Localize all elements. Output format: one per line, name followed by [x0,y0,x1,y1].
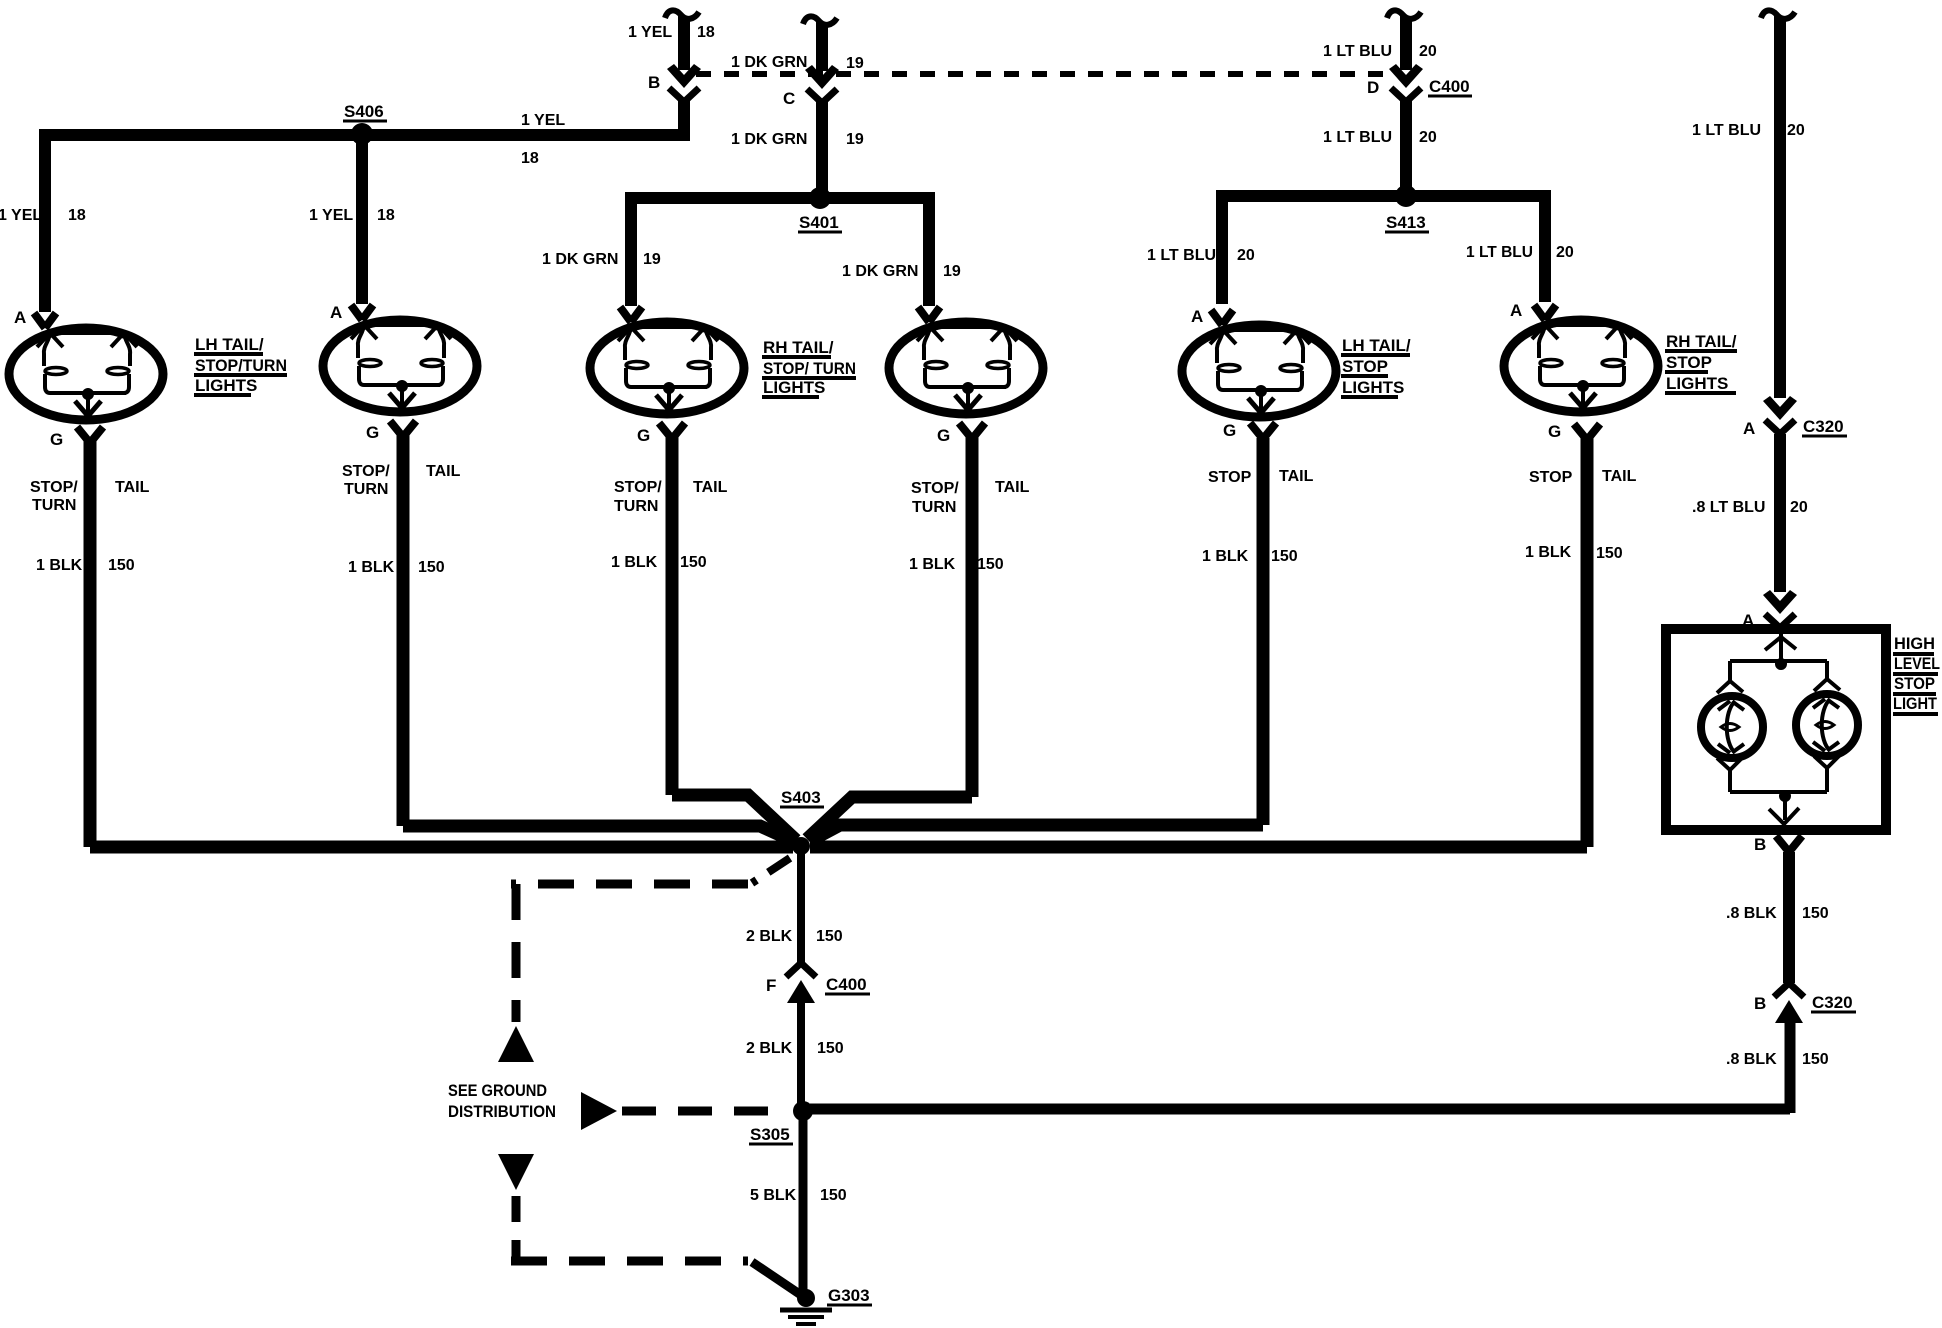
svg-text:A: A [1510,301,1522,320]
svg-text:1 LT BLU: 1 LT BLU [1323,129,1392,146]
svg-text:S401: S401 [799,213,839,232]
svg-text:2 BLK: 2 BLK [746,928,793,945]
svg-text:1 BLK: 1 BLK [1202,548,1249,565]
svg-text:RH TAIL/: RH TAIL/ [763,338,834,357]
splice S403 [792,837,810,855]
svg-text:150: 150 [680,554,707,571]
lamp1 LH tail/stop/turn bulb [9,328,163,420]
svg-text:LIGHTS: LIGHTS [195,376,257,395]
wire F to S305 [797,996,805,1103]
terminal box bulb left bottom [1717,757,1743,770]
svg-text:STOP: STOP [1208,469,1252,486]
connector B [667,64,701,102]
arrow right to S305 [581,1092,617,1130]
wire lamp1 ground run [90,440,793,847]
svg-text:20: 20 [1790,499,1808,516]
splice S406 [351,123,373,145]
svg-text:TURN: TURN [32,497,76,514]
svg-text:TAIL: TAIL [426,463,461,480]
svg-text:DISTRIBUTION: DISTRIBUTION [448,1102,556,1121]
wire dashed ground distribution stub [752,858,790,883]
svg-text:STOP/ TURN: STOP/ TURN [763,359,856,378]
svg-text:G: G [937,426,950,445]
svg-text:STOP/: STOP/ [614,479,662,496]
terminal box bulb right top [1814,679,1840,691]
svg-text:TURN: TURN [344,481,388,498]
svg-text:STOP/: STOP/ [342,463,390,480]
wire lamp5 ground run [810,438,1263,841]
svg-text:G: G [637,426,650,445]
svg-text:G: G [1223,421,1236,440]
splice S401 [809,187,831,209]
connector B top lead [678,16,690,70]
svg-text:TAIL: TAIL [693,479,728,496]
wire lamp3 ground run [672,436,796,840]
svg-text:B: B [1754,835,1766,854]
lamp4 RH tail/stop/turn bulb [889,322,1043,414]
hook D [1387,10,1421,18]
svg-text:.8 BLK: .8 BLK [1726,1051,1777,1068]
wire S406 to lamp2 [356,141,368,304]
wire lamp6 ground run [810,437,1587,847]
connector D top lead [1400,16,1412,70]
svg-text:.8 BLK: .8 BLK [1726,905,1777,922]
connector box A [1763,590,1797,628]
svg-text:20: 20 [1787,122,1805,139]
terminal A lamp6 [1534,305,1556,320]
lamp2 LH tail/stop/turn bulb [323,320,477,412]
terminal G lamp1 [77,427,103,443]
svg-text:150: 150 [418,559,445,576]
svg-text:18: 18 [521,150,539,167]
svg-text:STOP/TURN: STOP/TURN [195,356,287,375]
svg-text:STOP: STOP [1666,353,1712,372]
arrow up ground distribution [498,1026,534,1062]
wire stub to G303 [752,1262,801,1295]
svg-text:1 BLK: 1 BLK [1525,544,1572,561]
svg-text:C: C [783,89,795,108]
terminal G lamp6 [1574,424,1600,440]
svg-text:TAIL: TAIL [1602,468,1637,485]
terminal A lamp5 [1211,310,1233,325]
svg-text:SEE GROUND: SEE GROUND [448,1081,547,1100]
terminal G lamp4 [959,423,985,439]
connector F C400 [786,963,816,1003]
terminal B box [1776,836,1802,852]
svg-text:1 BLK: 1 BLK [611,554,658,571]
lamp5 LH tail/stop bulb [1182,325,1336,417]
svg-text:A: A [14,308,26,327]
svg-text:150: 150 [977,556,1004,573]
hook C [803,16,837,24]
svg-text:1 BLK: 1 BLK [909,556,956,573]
svg-text:20: 20 [1419,43,1437,60]
svg-text:TURN: TURN [614,498,658,515]
svg-text:A: A [1191,307,1203,326]
svg-text:LIGHTS: LIGHTS [1342,378,1404,397]
svg-text:S406: S406 [344,102,384,121]
svg-text:150: 150 [1596,545,1623,562]
svg-text:G: G [50,430,63,449]
svg-text:LIGHT: LIGHT [1893,694,1938,713]
wire right light blue lead [1774,16,1786,398]
node box outlet arrow [1769,800,1799,824]
svg-text:TURN: TURN [912,499,956,516]
wire S413 branches [1222,196,1545,304]
svg-text:18: 18 [377,207,395,224]
svg-text:18: 18 [697,24,715,41]
svg-text:1 LT BLU: 1 LT BLU [1323,43,1392,60]
svg-text:B: B [648,73,660,92]
label lamp34 name [762,338,856,397]
svg-text:F: F [766,976,776,995]
svg-text:A: A [1743,419,1755,438]
svg-text:1 YEL: 1 YEL [628,24,672,41]
svg-text:LEVEL: LEVEL [1894,654,1940,673]
svg-text:TAIL: TAIL [115,479,150,496]
svg-text:2 BLK: 2 BLK [746,1040,793,1057]
terminal box bulb left top [1717,681,1743,693]
wire dashed horizontal upper [511,880,748,889]
svg-text:A: A [1742,611,1754,630]
svg-text:STOP: STOP [1894,674,1935,693]
svg-text:19: 19 [846,55,864,72]
terminal G lamp2 [390,421,416,437]
wire box top rail [1730,661,1827,682]
label lamp12 name [194,335,287,395]
svg-text:LIGHTS: LIGHTS [763,378,825,397]
terminal G lamp5 [1250,423,1276,439]
svg-text:19: 19 [943,263,961,280]
svg-text:S305: S305 [750,1125,790,1144]
svg-text:18: 18 [68,207,86,224]
wire lamp4 ground run [807,436,972,839]
svg-text:1 LT BLU: 1 LT BLU [1692,122,1761,139]
wire C to S401 [816,101,828,192]
wire S403 down 2 BLK [797,854,805,963]
ground G303 [797,1289,815,1307]
node box feed [1779,634,1783,661]
svg-text:G: G [1548,422,1561,441]
lamp6 RH tail/stop bulb [1504,320,1658,412]
hook B [665,10,699,18]
label lamp5 name [1341,336,1411,397]
svg-text:1 LT BLU: 1 LT BLU [1466,244,1533,261]
terminal A lamp2 [351,305,373,320]
splice S305 [793,1101,813,1121]
svg-text:S403: S403 [781,788,821,807]
svg-text:1 BLK: 1 BLK [348,559,395,576]
arrow down ground distribution [498,1154,534,1190]
svg-text:LIGHTS: LIGHTS [1666,374,1728,393]
wire D to S413 [1400,101,1412,190]
svg-text:150: 150 [1802,1051,1829,1068]
wire C320B up to box B [1783,852,1795,983]
svg-text:A: A [330,303,342,322]
connector B C320 [1774,983,1804,1023]
svg-text:1 DK GRN: 1 DK GRN [731,54,807,71]
svg-text:1 DK GRN: 1 DK GRN [731,131,807,148]
svg-text:D: D [1367,78,1379,97]
wire S401 branches [631,198,929,306]
connector C320 A [1763,396,1797,434]
svg-text:STOP/: STOP/ [30,479,78,496]
connector C [805,65,839,103]
svg-text:1 YEL: 1 YEL [0,207,42,224]
svg-text:STOP: STOP [1529,469,1573,486]
svg-text:LH TAIL/: LH TAIL/ [1342,336,1411,355]
svg-text:150: 150 [817,1040,844,1057]
svg-text:1 DK GRN: 1 DK GRN [842,263,918,280]
svg-text:C320: C320 [1812,993,1853,1012]
svg-text:1 YEL: 1 YEL [521,112,565,129]
svg-text:150: 150 [816,928,843,945]
high level stop light box [1666,629,1886,830]
svg-text:TAIL: TAIL [1279,468,1314,485]
svg-text:150: 150 [1271,548,1298,565]
svg-text:S413: S413 [1386,213,1426,232]
svg-text:19: 19 [643,251,661,268]
bulb box left [1701,696,1763,758]
splice S413 [1395,185,1417,207]
terminal G lamp3 [659,423,685,439]
svg-text:TAIL: TAIL [995,479,1030,496]
wire dashed C400 inline boundary [696,71,1396,77]
terminal A lamp1 [34,313,56,328]
svg-text:20: 20 [1237,247,1255,264]
connector C top lead [816,22,828,71]
wire left yellow harness [45,98,684,312]
terminal A lamp4 [918,307,940,322]
terminal A lamp3 [620,307,642,322]
svg-text:1 YEL: 1 YEL [309,207,353,224]
terminal box bulb right bottom [1814,755,1840,768]
label lamp6 name [1665,332,1737,393]
svg-text:150: 150 [108,557,135,574]
svg-text:1 DK GRN: 1 DK GRN [542,251,618,268]
svg-text:RH TAIL/: RH TAIL/ [1666,332,1737,351]
svg-text:B: B [1754,994,1766,1013]
wire dashed vertical left upper [512,884,521,1022]
lamp3 RH tail/stop/turn bulb [590,322,744,414]
svg-text:150: 150 [1802,905,1829,922]
svg-text:C320: C320 [1803,417,1844,436]
bulb box right [1796,694,1858,756]
hook right [1761,10,1795,18]
svg-text:20: 20 [1556,244,1574,261]
wire S305 to ground 5 BLK [799,1119,808,1292]
svg-text:C400: C400 [826,975,867,994]
svg-text:G303: G303 [828,1286,870,1305]
wire C320A to box [1774,434,1786,592]
wire S305 right run to C320 B [810,1016,1790,1113]
label high level stop light [1893,634,1940,714]
svg-text:STOP: STOP [1342,357,1388,376]
svg-text:C400: C400 [1429,77,1470,96]
svg-text:LH TAIL/: LH TAIL/ [195,335,264,354]
svg-text:STOP/: STOP/ [911,480,959,497]
svg-text:150: 150 [820,1187,847,1204]
wire lamp2 ground run [403,434,793,841]
wire dashed to S305 [622,1107,790,1116]
svg-text:.8 LT BLU: .8 LT BLU [1692,499,1765,516]
svg-text:5 BLK: 5 BLK [750,1187,797,1204]
svg-text:G: G [366,423,379,442]
svg-text:19: 19 [846,131,864,148]
svg-text:1 BLK: 1 BLK [36,557,83,574]
wire dashed horizontal lower [511,1257,748,1266]
wire dashed vertical left lower [512,1196,521,1258]
svg-text:20: 20 [1419,129,1437,146]
wire box bottom rail [1730,766,1827,792]
svg-text:HIGH: HIGH [1894,634,1935,653]
svg-text:1 LT BLU: 1 LT BLU [1147,247,1216,264]
connector D C400 [1389,64,1423,102]
